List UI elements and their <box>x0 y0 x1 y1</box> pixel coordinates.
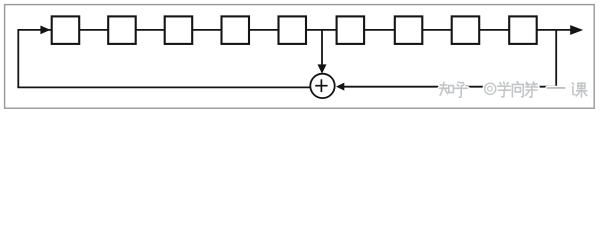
wire main shift line <box>17 29 570 31</box>
register stage D6 <box>337 16 365 44</box>
adder plus sign <box>315 79 327 92</box>
white halo pass <box>440 82 587 98</box>
wire feedback bottom horizontal <box>17 86 310 88</box>
register stage D3 <box>165 16 193 44</box>
register stage D5 <box>279 16 307 44</box>
arrow into D1 <box>40 26 50 35</box>
wire output branch vertical <box>555 30 557 88</box>
wire adder right input horizontal <box>344 86 556 88</box>
border frame <box>5 5 595 109</box>
wire feedback left vertical <box>17 30 19 88</box>
register stage D2 <box>108 16 136 44</box>
watermark 知乎 @学问第一课 <box>440 82 587 98</box>
arrow output right <box>570 25 583 35</box>
register stage D7 <box>395 16 423 44</box>
register stage D4 <box>222 16 250 44</box>
gray glyph pass <box>440 82 587 98</box>
arrow left into adder <box>336 83 344 91</box>
arrow down into adder <box>318 64 327 73</box>
adder (XOR) circle <box>310 74 334 98</box>
register stage D1 <box>52 16 79 44</box>
register stage D8 <box>452 16 480 44</box>
wire tap down to adder <box>321 30 323 66</box>
register stage D9 <box>509 16 537 44</box>
